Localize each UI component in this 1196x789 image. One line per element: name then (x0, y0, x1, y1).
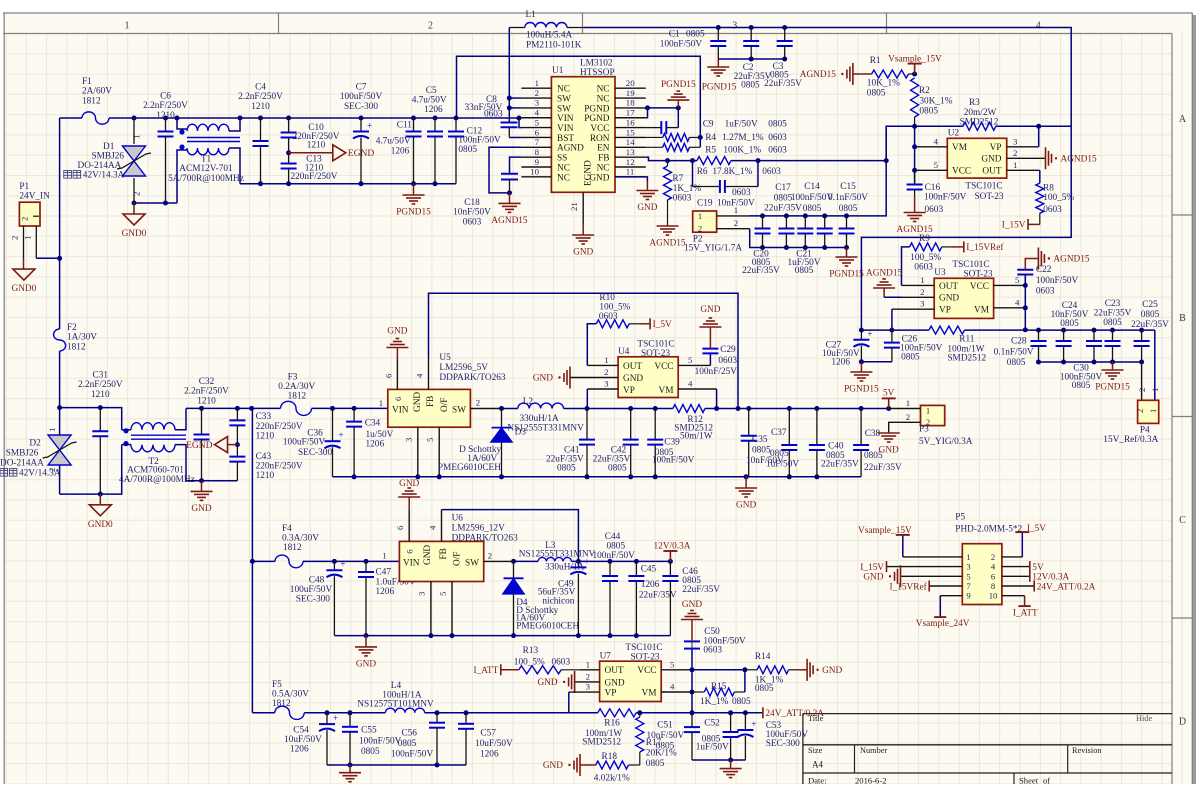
svg-text:1u/50V: 1u/50V (366, 430, 394, 440)
svg-text:AGND15: AGND15 (800, 70, 837, 80)
svg-text:11: 11 (626, 167, 634, 177)
capacitor C54 electrolytic (326, 713, 328, 724)
svg-text:0805: 0805 (774, 193, 793, 203)
connector P1 (19, 202, 40, 226)
svg-text:GND0: GND0 (12, 284, 37, 294)
pin 12 of U1 (615, 166, 646, 168)
svg-text:TSC101C: TSC101C (952, 260, 989, 270)
capacitor C22 (1024, 275, 1026, 286)
capacitor C57 (465, 713, 467, 724)
capacitor C23 (1092, 328, 1097, 333)
wire 15V top rail (583, 28, 1071, 127)
svg-text:0603: 0603 (484, 110, 503, 120)
svg-text:C34: C34 (365, 419, 381, 429)
svg-text:14: 14 (626, 137, 635, 147)
pin 6 of U1 (521, 136, 551, 138)
power port GND flipped (398, 496, 420, 498)
power port PGND15 (403, 194, 425, 196)
svg-text:1812: 1812 (272, 699, 291, 709)
svg-text:5V: 5V (883, 388, 895, 398)
svg-text:AGND15: AGND15 (649, 239, 686, 249)
svg-text:GND: GND (939, 294, 959, 304)
IC U3 TSC101C (934, 278, 993, 318)
port 24V_ATT/0.2A (762, 707, 764, 718)
power port GND (191, 490, 213, 492)
svg-text:2.2nF/250V: 2.2nF/250V (184, 387, 229, 397)
svg-text:100nF/50V: 100nF/50V (458, 136, 501, 146)
svg-text:220nF/250V: 220nF/250V (256, 422, 303, 432)
svg-text:C25: C25 (1142, 300, 1158, 310)
svg-text:GND: GND (605, 678, 625, 688)
pin 6 of U6 (408, 510, 410, 541)
svg-text:2: 2 (10, 236, 20, 240)
svg-text:1210: 1210 (156, 111, 175, 121)
svg-text:4: 4 (688, 379, 693, 389)
port I_5V (640, 323, 651, 325)
wire 12V rail (514, 560, 539, 562)
pin 1 of P1 (35, 226, 37, 258)
svg-text:4A/700R@100MHz: 4A/700R@100MHz (119, 475, 195, 485)
pin 4 of U1 (521, 117, 551, 119)
resistor R11 shunt (929, 326, 965, 334)
svg-text:SEC-300: SEC-300 (298, 448, 332, 458)
svg-text:12: 12 (626, 157, 635, 167)
pin 7 of P5 (929, 585, 962, 587)
power port AGND15 below C16 (914, 196, 916, 213)
pin 5 of U6 (451, 582, 453, 636)
power port EGND (333, 145, 346, 161)
wire input node to TVS D2 (59, 408, 61, 495)
svg-text:1206: 1206 (391, 147, 410, 157)
svg-text:21: 21 (569, 202, 579, 211)
svg-text:10: 10 (530, 167, 539, 177)
capacitor C13 (288, 153, 290, 164)
title block (803, 713, 1172, 715)
svg-text:Vsample_15V: Vsample_15V (888, 54, 942, 64)
power port GND below C47 (365, 636, 367, 647)
svg-text:4: 4 (1015, 297, 1020, 307)
svg-text:SW: SW (465, 559, 479, 569)
svg-text:C33: C33 (256, 412, 272, 422)
svg-text:100K_1%: 100K_1% (723, 146, 761, 156)
svg-text:SW: SW (557, 104, 571, 114)
svg-text:VIN: VIN (557, 114, 574, 124)
svg-text:SW: SW (557, 94, 571, 104)
svg-text:1: 1 (382, 551, 386, 561)
schottky diode D3 (501, 409, 503, 428)
svg-text:3: 3 (966, 562, 970, 572)
svg-text:2: 2 (604, 367, 608, 377)
svg-text:U5: U5 (439, 353, 451, 363)
svg-text:0603: 0603 (768, 133, 787, 143)
capacitor C55 (349, 713, 351, 727)
svg-text:C16: C16 (925, 183, 941, 193)
svg-text:GND: GND (423, 545, 433, 565)
svg-text:0805: 0805 (607, 542, 626, 552)
svg-text:GND: GND (879, 446, 899, 456)
wire RON to VIN (457, 56, 701, 147)
svg-text:SMD2512: SMD2512 (582, 738, 621, 748)
wire mid input rail (252, 407, 281, 409)
port I_15VRef (952, 246, 964, 248)
svg-text:C38: C38 (865, 429, 881, 439)
svg-text:6: 6 (384, 373, 394, 378)
pin 2 of P2 (717, 228, 750, 230)
capacitor C25 (1110, 328, 1115, 333)
pin 3 of P5 (887, 566, 963, 568)
port 12V/0.3A (1029, 571, 1031, 582)
svg-text:0805: 0805 (752, 446, 771, 456)
capacitor C14 (785, 216, 787, 229)
wire 24V input vertical rail (59, 118, 61, 329)
svg-text:100uH/5.4A: 100uH/5.4A (526, 31, 573, 41)
svg-text:I_ATT: I_ATT (1013, 609, 1038, 619)
svg-text:0805: 0805 (901, 353, 920, 363)
pin 5 of U2 (915, 169, 948, 171)
wire C1 C2 C3 bottom (718, 58, 784, 60)
svg-text:B: B (1179, 313, 1186, 324)
svg-text:R14: R14 (755, 652, 771, 662)
power port 12V/0.3A (669, 551, 671, 561)
svg-text:R16: R16 (604, 719, 620, 729)
svg-text:1: 1 (586, 659, 590, 669)
svg-text:13: 13 (626, 147, 635, 157)
power port PGND15 (1102, 369, 1124, 371)
svg-text:4: 4 (415, 373, 425, 378)
svg-text:ACM12V-701: ACM12V-701 (179, 164, 233, 174)
resistor R18 (596, 761, 629, 769)
capacitor C41 (586, 409, 588, 440)
wire SW pins to L1 (509, 97, 521, 99)
capacitor C10 (286, 116, 291, 121)
svg-text:TSC101C: TSC101C (965, 182, 1002, 192)
svg-text:GND: GND (682, 600, 702, 610)
power port PGND15 below bank (1112, 362, 1114, 370)
pin 13 of U1 (615, 156, 646, 158)
svg-text:NC: NC (597, 85, 610, 95)
svg-text:Sheet: Sheet (1019, 776, 1039, 785)
pin 10 of P5 (1002, 595, 1025, 597)
svg-text:0805: 0805 (1007, 358, 1026, 368)
svg-text:0603: 0603 (1036, 287, 1055, 297)
svg-text:PGND15: PGND15 (829, 270, 864, 280)
svg-text:2: 2 (991, 552, 995, 562)
resistor R10 (587, 324, 596, 366)
resistor R12 shunt 5V (673, 405, 705, 413)
pin 1 of U3 (902, 284, 935, 286)
svg-text:0.1nF/50V: 0.1nF/50V (828, 193, 868, 203)
svg-text:ACM7060-701: ACM7060-701 (127, 466, 184, 476)
svg-text:C19: C19 (697, 199, 713, 209)
svg-text:PGND15: PGND15 (396, 208, 431, 218)
svg-text:R10: R10 (599, 293, 615, 303)
svg-text:3: 3 (417, 591, 427, 596)
capacitor C52 (730, 713, 732, 732)
pin 3 of U5 (417, 427, 419, 477)
svg-text:R5: R5 (705, 146, 716, 156)
svg-text:0603: 0603 (914, 263, 933, 273)
pin 1 of U4 (587, 364, 618, 366)
svg-text:100_5%: 100_5% (910, 253, 941, 263)
IC U1 LM3102 (551, 77, 615, 193)
pin 18 of U1 (615, 107, 646, 109)
resistor R15 (692, 691, 704, 693)
svg-text:C37: C37 (771, 428, 787, 438)
capacitor C21 (846, 216, 848, 229)
IC U7 TSC101C (600, 661, 662, 701)
resistor R9 (902, 247, 910, 286)
wire PGND15 cap bank bottom (750, 229, 847, 248)
svg-text:17.8K_1%: 17.8K_1% (712, 167, 752, 177)
svg-text:12V/0.3A: 12V/0.3A (654, 542, 691, 552)
svg-text:BST: BST (557, 134, 574, 144)
TVS diode D2 (48, 435, 71, 450)
ground GND (806, 659, 808, 681)
svg-text:1K_1%: 1K_1% (700, 697, 729, 707)
power port AGND15 below R7 (667, 224, 669, 226)
svg-text:GND: GND (700, 305, 720, 315)
svg-text:3: 3 (404, 437, 414, 442)
svg-text:C15: C15 (840, 182, 856, 192)
svg-text:VP: VP (623, 386, 635, 396)
svg-text:GND: GND (191, 504, 211, 514)
svg-text:GND: GND (623, 374, 643, 384)
svg-text:6: 6 (535, 127, 540, 137)
svg-text:PMEG6010CEH: PMEG6010CEH (516, 622, 579, 632)
svg-text:1A/30V: 1A/30V (67, 333, 97, 343)
svg-text:1: 1 (1013, 160, 1017, 170)
svg-text:2: 2 (428, 21, 433, 32)
svg-text:1: 1 (906, 398, 910, 408)
svg-text:OUT: OUT (605, 666, 624, 676)
svg-text:LM3102: LM3102 (580, 59, 613, 69)
svg-text:7: 7 (535, 137, 540, 147)
svg-text:2A/60V: 2A/60V (82, 87, 112, 97)
power port PGND15 below C1 (717, 59, 719, 67)
svg-text:C48: C48 (309, 576, 325, 586)
svg-text:DDPARK/TO263: DDPARK/TO263 (439, 373, 505, 383)
pin 4 of U4 (678, 388, 716, 390)
power port GND0 (13, 269, 35, 280)
svg-text:1.27M_1%: 1.27M_1% (722, 133, 764, 143)
resistor R3 shunt (963, 122, 996, 130)
svg-text:I_15V: I_15V (860, 563, 884, 573)
svg-text:2: 2 (920, 287, 924, 297)
svg-text:SOT-23: SOT-23 (974, 192, 1003, 202)
svg-text:Revision: Revision (1072, 746, 1102, 755)
svg-text:0805: 0805 (1141, 310, 1160, 320)
svg-text:SOT-23: SOT-23 (641, 349, 670, 359)
power port GND below C32 (201, 481, 203, 492)
capacitor C16 (914, 170, 916, 184)
svg-text:VIN: VIN (403, 559, 420, 569)
wire SS pin8 to C18 (510, 157, 522, 174)
svg-text:TSC101C: TSC101C (637, 340, 674, 350)
svg-text:SEC-300: SEC-300 (296, 595, 330, 605)
svg-text:5: 5 (688, 355, 693, 365)
port I_ATT (501, 669, 519, 671)
pin 1 of U2 (1007, 169, 1040, 171)
svg-text:100uF/50V: 100uF/50V (283, 438, 326, 448)
wire top input rail (60, 117, 82, 119)
power port GND (355, 646, 377, 648)
svg-text:10uF/50V: 10uF/50V (475, 739, 513, 749)
svg-text:12V/0.3A: 12V/0.3A (1032, 573, 1069, 583)
wire VM to rail (691, 649, 693, 713)
svg-text:6: 6 (991, 571, 996, 581)
svg-text:C4: C4 (255, 83, 266, 93)
svg-text:L1: L1 (526, 10, 537, 20)
wire L1 to SW pins (508, 28, 510, 123)
capacitor C53 electrolytic (744, 713, 746, 730)
port 24V_ATT/0.2A (1033, 581, 1035, 592)
svg-text:EN: EN (597, 144, 610, 154)
svg-text:1: 1 (966, 552, 970, 562)
svg-text:19: 19 (626, 88, 635, 98)
svg-text:16: 16 (626, 117, 635, 127)
svg-text:6: 6 (393, 396, 403, 401)
power port GND above U5 pin6 (396, 348, 398, 359)
pin 4 of U3 (994, 307, 1026, 309)
svg-text:1210: 1210 (91, 390, 110, 400)
svg-text:0805: 0805 (839, 204, 858, 214)
pin 3 of U2 (1007, 146, 1039, 148)
wire PGND pins 17 18 (646, 107, 679, 109)
svg-text:Date:: Date: (808, 776, 827, 785)
capacitor C24 (1061, 328, 1066, 333)
svg-text:1: 1 (47, 428, 57, 432)
svg-text:2: 2 (488, 551, 492, 561)
svg-text:SOT-23: SOT-23 (963, 270, 992, 280)
svg-text:1812: 1812 (82, 96, 101, 106)
svg-text:0603: 0603 (703, 646, 722, 656)
svg-text:1210: 1210 (256, 471, 275, 481)
svg-text:R11: R11 (959, 335, 975, 345)
ground AGND15 (1045, 147, 1047, 169)
svg-text:4.02k/1%: 4.02k/1% (594, 774, 630, 784)
wire ref cap bank bottom (1039, 361, 1142, 363)
svg-text:C40: C40 (828, 442, 844, 452)
svg-text:RON: RON (590, 134, 610, 144)
svg-text:VM: VM (952, 143, 967, 153)
svg-text:0805: 0805 (1103, 318, 1122, 328)
pin 17 of U1 (615, 117, 646, 119)
port I_15V (886, 561, 888, 572)
svg-text:OUT: OUT (982, 167, 1001, 177)
svg-text:PGND: PGND (584, 104, 610, 114)
svg-text:C7: C7 (356, 83, 367, 93)
pin 3 of U6 (430, 582, 432, 636)
pin 2 of P1 (23, 226, 25, 259)
svg-text:22uF/35V: 22uF/35V (1131, 320, 1169, 330)
svg-text:VCC: VCC (970, 282, 989, 292)
svg-text:C56: C56 (401, 729, 417, 739)
wire bottom rail 2 (60, 445, 122, 495)
svg-text:1812: 1812 (67, 342, 86, 352)
port I_ATT (500, 664, 502, 675)
inductor L2 (518, 403, 564, 408)
svg-text:10nF/50V: 10nF/50V (647, 731, 685, 741)
svg-text:0805: 0805 (732, 697, 751, 707)
svg-text:C: C (1179, 515, 1186, 526)
svg-text:C55: C55 (361, 726, 377, 736)
power port GND flipped (386, 347, 408, 349)
pin 8 of U1 (521, 156, 551, 158)
svg-text:I_15VRef: I_15VRef (966, 242, 1004, 253)
svg-text:1: 1 (926, 406, 930, 416)
wire VM VCC vertical (914, 126, 916, 184)
svg-text:1206: 1206 (424, 105, 443, 115)
svg-text:1812: 1812 (288, 392, 307, 402)
svg-text:330uH/1A: 330uH/1A (520, 414, 560, 424)
svg-text:3: 3 (535, 98, 540, 108)
wire AGND pin7 (489, 147, 521, 193)
svg-text:8: 8 (991, 581, 995, 591)
svg-text:0805: 0805 (458, 145, 477, 155)
svg-text:VCC: VCC (637, 666, 656, 676)
svg-text:A: A (1179, 114, 1187, 125)
svg-text:+: + (340, 559, 345, 569)
svg-text:1210: 1210 (307, 141, 326, 151)
power port PGND15 (707, 66, 729, 68)
svg-text:0805: 0805 (795, 266, 814, 276)
pin 4 of U6 FB (441, 510, 443, 542)
svg-text:I_15V: I_15V (1002, 221, 1026, 231)
svg-text:L2: L2 (523, 397, 534, 407)
svg-text:I_5V: I_5V (653, 320, 672, 330)
fuse F1 (82, 112, 109, 124)
svg-text:AGND15: AGND15 (1053, 255, 1090, 265)
svg-text:F2: F2 (67, 323, 77, 333)
svg-text:A4: A4 (812, 760, 823, 770)
svg-text:L4: L4 (391, 681, 402, 691)
pin 9 of U1 (521, 166, 551, 168)
svg-text:VM: VM (974, 306, 989, 316)
svg-text:2: 2 (906, 412, 910, 422)
capacitor C6 (163, 116, 168, 121)
TVS diode D1 (132, 116, 137, 121)
svg-text:NC: NC (557, 163, 570, 173)
svg-text:OUT: OUT (623, 362, 642, 372)
pin 4 of U2 (915, 146, 948, 148)
svg-text:VP: VP (990, 143, 1002, 153)
svg-text:F3: F3 (288, 373, 298, 383)
svg-text:100uF/50V: 100uF/50V (290, 585, 333, 595)
pin 10 of U1 (521, 176, 551, 178)
svg-text:10uF/50V: 10uF/50V (284, 735, 322, 745)
ground GND (579, 754, 581, 776)
power port GND at U1 pin11 (615, 177, 647, 181)
svg-text:1210: 1210 (251, 102, 270, 112)
svg-text:2: 2 (1135, 409, 1145, 413)
svg-text:C1: C1 (669, 30, 680, 40)
svg-text:1: 1 (132, 135, 142, 139)
svg-text:5: 5 (438, 591, 448, 596)
pin 2 of P5 (1002, 556, 1022, 558)
power port EGND (215, 437, 228, 453)
wire 15V to cap bank (749, 126, 887, 216)
svg-text:PMEG6010CEH: PMEG6010CEH (438, 463, 501, 473)
connector P3 (921, 405, 945, 425)
svg-text:+: + (367, 121, 372, 131)
svg-text:4: 4 (991, 562, 996, 572)
svg-text:20: 20 (626, 78, 635, 88)
wire F3 to VIN (312, 407, 388, 409)
svg-text:2: 2 (1137, 388, 1147, 392)
fuse F3 (281, 401, 312, 415)
svg-text:6: 6 (395, 525, 405, 530)
svg-text:R15: R15 (711, 682, 727, 692)
